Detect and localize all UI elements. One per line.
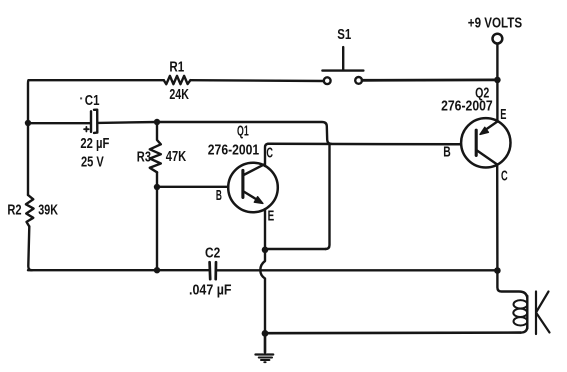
capacitor C1 [90, 111, 92, 132]
transistor Q1 body [228, 163, 278, 213]
svg-text:25 V: 25 V [81, 154, 104, 170]
transistor Q1 collector stroke [244, 164, 265, 175]
resistor R3 [150, 122, 161, 172]
node Q1 emitter loop junction [262, 247, 269, 254]
ground bar 3 [261, 359, 269, 361]
svg-text:S1: S1 [337, 27, 351, 43]
wire Q2 collector lead down [496, 166, 499, 271]
svg-text:R2: R2 [7, 203, 21, 219]
wire left rail lower (R2 to bottom corner) [28, 227, 32, 271]
transistor Q2 collector stroke [477, 151, 497, 165]
svg-text:276-2007: 276-2007 [441, 99, 493, 115]
node Q2 collector / bottom rail [494, 267, 501, 274]
svg-text:B: B [216, 188, 222, 204]
wire Q1 emitter lead down with crossing kink [260, 210, 265, 353]
switch S1 [324, 77, 331, 84]
wire emitter loop horizontal [265, 248, 326, 250]
wire +9V terminal down to Q2 emitter [496, 44, 498, 122]
node Q1 base [154, 184, 160, 190]
wire top rail (switch right contact to +9V node) [362, 79, 497, 82]
earphone coil loop 1 [514, 300, 528, 308]
earphone coil loop 3 [514, 317, 528, 325]
svg-text:C1: C1 [85, 93, 100, 109]
wire C1 to R3 top node [98, 121, 157, 124]
svg-text:C: C [266, 145, 273, 161]
svg-text:R1: R1 [169, 59, 184, 75]
wire left rail upper (top corner to R2) [27, 80, 30, 195]
svg-text:47K: 47K [166, 149, 187, 165]
transistor Q2 emitter stroke with arrow [484, 122, 498, 132]
svg-text:+9 VOLTS: +9 VOLTS [468, 15, 522, 31]
svg-text:E: E [500, 107, 506, 123]
svg-text:22 µF: 22 µF [80, 136, 109, 152]
svg-text:39K: 39K [38, 203, 58, 219]
ground stem [264, 336, 266, 353]
svg-text:C2: C2 [205, 246, 220, 262]
wire top rail left (left rail corner to R1) [29, 79, 164, 81]
wire R3 bottom lead to base node [156, 172, 158, 187]
resistor R2 [26, 195, 34, 227]
node R3 line / bottom rail [154, 267, 160, 273]
earphone coil loop 2 [513, 309, 527, 317]
svg-text:Q1: Q1 [237, 124, 249, 140]
ground bar 1 [256, 353, 274, 355]
wire R3 node to right-angle bend down [157, 122, 331, 144]
svg-text:C: C [501, 168, 508, 184]
earphone coil bottom exit [521, 327, 528, 333]
wire top rail (R1 to switch S1 left contact) [190, 79, 323, 82]
node +9V rail junction [494, 77, 501, 84]
svg-text:E: E [268, 208, 275, 224]
ground tick [264, 361, 265, 363]
earphone magnet bar (K shape) [536, 292, 550, 335]
node R3 top [154, 119, 160, 125]
transistor Q2 body [461, 118, 510, 167]
wire base node down to bottom rail [156, 187, 158, 270]
svg-text:R3: R3 [137, 149, 151, 165]
+9 VOLTS terminal [493, 34, 503, 44]
wire earphone feed (collector node down, right into coil) [497, 271, 527, 299]
wire Q1 base lead [157, 186, 228, 188]
capacitor C2 [208, 262, 211, 279]
earphone coil right side [526, 296, 528, 329]
wire bottom return (ground node to coil) [265, 331, 521, 334]
wire Q1 collector lead [265, 144, 269, 166]
node left rail / C1 branch [25, 120, 31, 126]
ground bar 2 [259, 356, 272, 358]
transistor Q2 base bar [475, 130, 478, 155]
svg-text:276-2001: 276-2001 [208, 142, 259, 158]
wire vertical feedback drop [326, 144, 330, 249]
resistor R1 [164, 76, 191, 84]
wire feedback mid rail (Q1 collector corner to Q2 base) [268, 143, 461, 146]
wire bottom rail (left corner to C2) [28, 269, 209, 271]
stray tick before C1 [80, 97, 82, 99]
transistor Q1 base bar [241, 170, 244, 197]
wire bottom rail (C2 to Q2 collector node) [217, 269, 497, 271]
wire C1 branch (left rail to C1) [28, 122, 90, 124]
svg-text:24K: 24K [169, 87, 189, 103]
transistor Q1 emitter stroke with arrow [244, 192, 260, 202]
svg-text:B: B [443, 144, 451, 160]
svg-text:.047 µF: .047 µF [189, 282, 232, 298]
node ground junction [262, 330, 269, 337]
